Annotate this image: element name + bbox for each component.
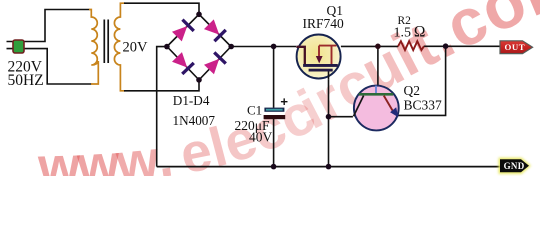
Q1 gate lead inside — [328, 72, 330, 80]
wire left vertex to ground rail — [157, 47, 167, 167]
svg-text:50HZ: 50HZ — [8, 72, 44, 89]
Q2 collector lead — [354, 96, 364, 117]
svg-text:C1: C1 — [247, 103, 262, 118]
ground rail — [157, 166, 500, 168]
junction node C1 ground — [271, 164, 277, 170]
mosfet Q1 body — [297, 35, 341, 79]
svg-text:Q2: Q2 — [404, 83, 421, 98]
junction node C1 top — [271, 44, 277, 50]
bridge frame wires — [167, 14, 231, 80]
wire C1 branch upper — [273, 46, 275, 107]
wire plug stubs — [7, 42, 14, 49]
junction node Q2 emitter rail — [443, 43, 449, 49]
watermark www.eleccircuit.com — [36, 0, 540, 197]
wire C1 branch lower — [273, 119, 275, 167]
Q1 gate bar — [309, 69, 333, 72]
wire rail R2 to OUT — [424, 45, 500, 47]
svg-text:IRF740: IRF740 — [303, 16, 345, 31]
transistor Q2 body — [354, 86, 399, 131]
diode D2 top-right — [203, 19, 227, 43]
junction node left vertex — [164, 44, 170, 50]
transformer T1 secondary winding — [114, 3, 125, 91]
wire Q1 gate down — [328, 80, 330, 167]
Q1 channel bar — [303, 64, 338, 67]
diode D3 bottom-left — [171, 51, 195, 75]
diode D1 top-left — [171, 18, 195, 42]
svg-text:D1-D4: D1-D4 — [173, 93, 210, 108]
wire Q2 collector branch — [329, 116, 353, 118]
capacitor C1 top plate — [264, 108, 284, 112]
Q2 base stem — [375, 86, 377, 94]
junction node gate ground — [326, 164, 332, 170]
Q1 source structure — [319, 46, 337, 64]
wire secondary top to bridge — [124, 3, 199, 14]
OUT terminal — [500, 41, 533, 54]
wire primary lower — [24, 49, 92, 84]
svg-text:BC337: BC337 — [404, 97, 443, 112]
diode D4 bottom-right — [203, 51, 227, 75]
junction node top vertex — [196, 12, 202, 18]
wire primary upper — [24, 10, 90, 42]
svg-text:1.5 Ω: 1.5 Ω — [394, 24, 426, 41]
svg-text:40V: 40V — [249, 130, 273, 145]
Q2 emitter lead — [384, 96, 393, 111]
junction node collector — [326, 114, 332, 120]
resistor R2 — [398, 41, 424, 50]
svg-text:20V: 20V — [123, 40, 149, 56]
GND terminal glow — [499, 158, 532, 174]
svg-text:OUT: OUT — [505, 42, 526, 52]
wire positive rail bridge to Q1 — [231, 46, 296, 48]
transformer T1 core — [104, 20, 108, 64]
Q2 base bar — [359, 93, 393, 96]
Q1 body arrow — [316, 56, 323, 63]
C1 plus sign — [281, 98, 288, 105]
GND terminal — [500, 159, 529, 172]
wire rail Q1 to R2 — [341, 45, 398, 47]
capacitor C1 bottom plate — [264, 115, 286, 119]
junction node right vertex — [228, 44, 234, 50]
wire Q2 base branch — [377, 46, 379, 86]
svg-text:GND: GND — [504, 161, 525, 171]
Q2 emitter arrow — [390, 107, 398, 117]
svg-text:1N4007: 1N4007 — [173, 113, 216, 128]
wire Q2 emitter loop — [398, 46, 446, 115]
transformer T1 primary winding — [89, 10, 98, 85]
Q1 drain lead — [296, 47, 304, 64]
junction node Q2 base rail — [375, 44, 381, 50]
wire secondary bottom to bridge — [124, 80, 199, 91]
junction node bottom vertex — [196, 77, 202, 83]
plug P1 220V — [13, 40, 24, 53]
